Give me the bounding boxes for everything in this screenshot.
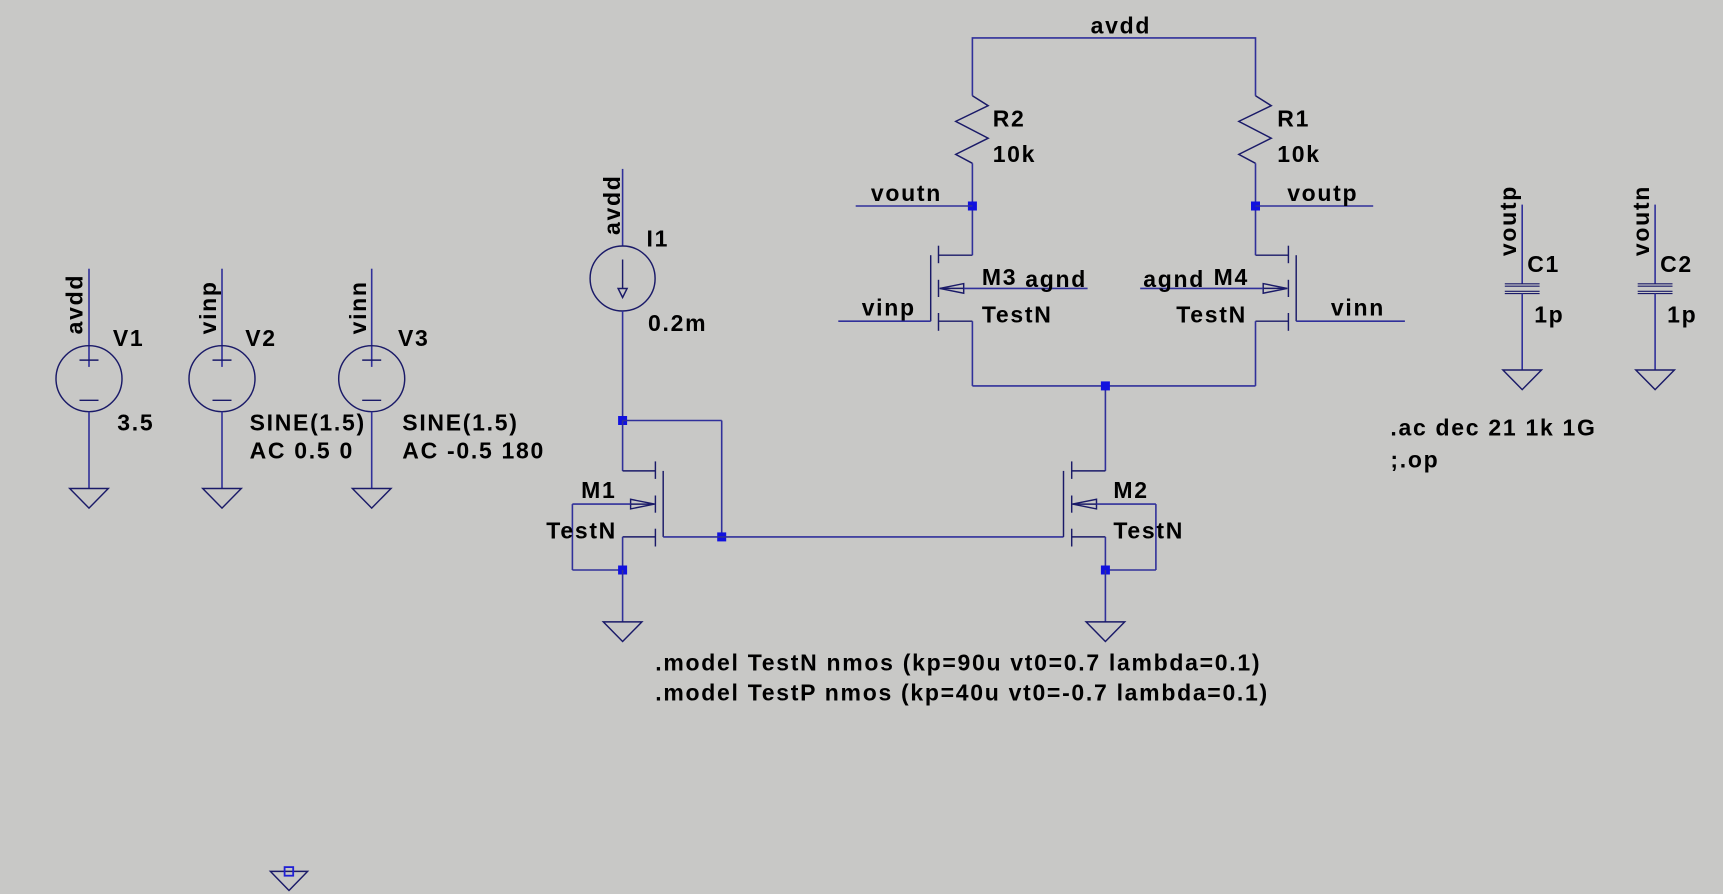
transistor M4 — [1140, 206, 1296, 386]
svg-text:10k: 10k — [1277, 141, 1320, 167]
wire C2 top — [1654, 205, 1656, 284]
node junction gate wire — [717, 532, 726, 541]
svg-text:avdd: avdd — [61, 274, 87, 334]
svg-text:voutn: voutn — [1628, 185, 1654, 256]
svg-text:.ac dec 21 1k 1G: .ac dec 21 1k 1G — [1390, 415, 1596, 441]
svg-text:M4: M4 — [1214, 264, 1249, 290]
svg-text:TestN: TestN — [1113, 517, 1184, 543]
svg-text:TestN: TestN — [982, 302, 1053, 328]
wire avdd rail — [972, 38, 1255, 96]
wire V1 top — [88, 269, 90, 367]
wire tail M4 — [1105, 385, 1255, 387]
svg-text:1p: 1p — [1667, 301, 1697, 327]
svg-text:vinp: vinp — [195, 280, 221, 334]
svg-text:TestN: TestN — [1176, 302, 1247, 328]
svg-text:voutn: voutn — [871, 180, 942, 206]
capacitor C1 — [1505, 284, 1540, 294]
capacitor C2 — [1638, 284, 1673, 294]
ground C2 — [1636, 370, 1675, 390]
wire R1 bottom — [1255, 163, 1257, 206]
svg-text:C2: C2 — [1660, 251, 1693, 277]
ground V3 — [352, 489, 391, 509]
svg-text:C1: C1 — [1527, 251, 1560, 277]
voltage source V1 — [56, 346, 122, 412]
svg-text:AC 0.5 0: AC 0.5 0 — [250, 437, 354, 463]
svg-text:M3: M3 — [982, 264, 1017, 290]
svg-text:avdd: avdd — [1091, 13, 1151, 39]
wire C1 bottom — [1521, 294, 1523, 371]
wire V3 top — [371, 269, 373, 367]
node junction I1-M1 — [618, 416, 627, 425]
svg-text:SINE(1.5): SINE(1.5) — [402, 409, 518, 435]
svg-text:R2: R2 — [993, 105, 1026, 131]
wire tail M3 — [972, 385, 1105, 387]
svg-text:M2: M2 — [1113, 477, 1148, 503]
resistor R1 — [1239, 96, 1272, 164]
wire vinp — [838, 320, 930, 322]
transistor M1 — [572, 421, 663, 571]
svg-text:V3: V3 — [398, 325, 430, 351]
svg-text:.model TestN nmos (kp=90u vt0=: .model TestN nmos (kp=90u vt0=0.7 lambda… — [655, 649, 1261, 675]
wire gate M1 to M2 — [663, 536, 1063, 538]
voltage source V2 — [189, 346, 255, 412]
wire vinn — [1296, 320, 1405, 322]
svg-text:;.op: ;.op — [1390, 446, 1439, 472]
resistor R2 — [956, 96, 989, 164]
wire C2 bottom — [1654, 294, 1656, 371]
svg-text:voutp: voutp — [1495, 185, 1521, 256]
svg-text:M1: M1 — [581, 477, 616, 503]
svg-text:R1: R1 — [1277, 105, 1310, 131]
svg-text:agnd: agnd — [1143, 266, 1205, 292]
svg-text:SINE(1.5): SINE(1.5) — [250, 409, 366, 435]
current source I1 — [590, 246, 655, 311]
svg-text:I1: I1 — [647, 225, 670, 251]
ground floating — [270, 867, 307, 890]
wire V2 top — [221, 269, 223, 367]
wire C1 top — [1521, 205, 1523, 284]
voltage source V3 — [339, 346, 405, 412]
svg-text:1p: 1p — [1534, 301, 1564, 327]
svg-text:avdd: avdd — [599, 175, 625, 235]
wire M2 source to ground — [1104, 570, 1106, 622]
node junction voutn — [968, 202, 977, 211]
wire R2 bottom — [971, 163, 973, 206]
svg-text:10k: 10k — [993, 141, 1036, 167]
wire I1 bottom — [622, 311, 624, 421]
ground M1 — [603, 622, 642, 642]
svg-text:V2: V2 — [245, 325, 277, 351]
wire junction to gate column — [623, 420, 722, 422]
node junction voutp — [1251, 202, 1260, 211]
wire V1 bottom — [88, 412, 90, 489]
svg-text:vinn: vinn — [1331, 295, 1385, 321]
svg-text:0.2m: 0.2m — [648, 310, 707, 336]
svg-text:AC -0.5 180: AC -0.5 180 — [402, 437, 545, 463]
wire voutp — [1256, 205, 1374, 207]
wire M1 source to ground — [622, 570, 624, 622]
ground C1 — [1503, 370, 1542, 390]
transistor M3 — [931, 206, 1088, 386]
svg-text:TestN: TestN — [546, 517, 617, 543]
svg-text:vinn: vinn — [345, 280, 371, 334]
ground V1 — [70, 489, 109, 509]
wire voutn — [856, 205, 973, 207]
node junction M2 source — [1101, 566, 1110, 575]
wire V3 bottom — [371, 412, 373, 489]
svg-text:vinp: vinp — [862, 295, 916, 321]
node junction M1 source — [618, 566, 627, 575]
svg-text:3.5: 3.5 — [117, 409, 154, 435]
transistor M2 — [1064, 386, 1156, 570]
node junction tail — [1101, 381, 1110, 390]
svg-text:V1: V1 — [113, 325, 145, 351]
svg-text:agnd: agnd — [1025, 266, 1087, 292]
ground V2 — [203, 489, 242, 509]
ground M2 — [1086, 622, 1125, 642]
svg-text:.model TestP nmos (kp=40u vt0=: .model TestP nmos (kp=40u vt0=-0.7 lambd… — [655, 679, 1269, 705]
wire V2 bottom — [221, 412, 223, 489]
svg-text:voutp: voutp — [1287, 180, 1358, 206]
wire I1 top — [622, 169, 624, 246]
wire gate column down — [721, 421, 723, 537]
